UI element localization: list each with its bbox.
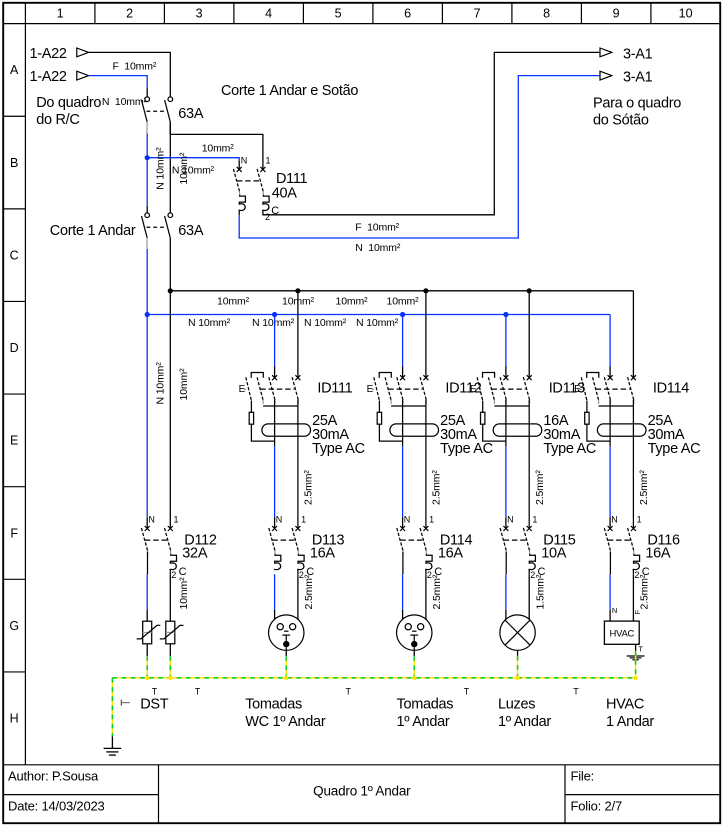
RCD ID113 test switch blade (477, 377, 483, 400)
RCD ID113 pole connector bar (494, 405, 529, 407)
node earth junction (yellow dot) (412, 676, 416, 680)
node earth junction (yellow dot) (168, 676, 172, 680)
RCD ID113 pole F blade (523, 377, 529, 399)
node bus N left junction (145, 312, 150, 317)
isolator switch Q1 63A pole N (145, 97, 150, 102)
mechanical link D113 (272, 539, 296, 541)
wire D111 F out to 3-A1 (263, 52, 600, 214)
socket earth pin (412, 630, 416, 632)
breaker D115 pole N blade (500, 528, 506, 550)
breaker D115 pole N lead (505, 552, 507, 575)
RCD ID114 toroid sensor (597, 424, 646, 436)
wire drop F to ID112 (425, 291, 427, 378)
svg-text:N: N (611, 515, 618, 525)
RCD ID111 test switch blade (246, 377, 252, 400)
wire socket to earth (285, 650, 287, 656)
earth wire (green/yellow) (285, 656, 287, 678)
mechanical link D112 (145, 539, 168, 541)
node earth junction (yellow dot) (284, 676, 288, 680)
breaker D116 pole N terminal (608, 526, 613, 531)
RCD ID111 pole N terminal (272, 375, 277, 380)
svg-text:Corte 1 Andar: Corte 1 Andar (50, 223, 136, 239)
wire drop N to ID112 (blue) (402, 315, 404, 367)
svg-text:N: N (612, 606, 617, 615)
svg-text:ID114: ID114 (653, 380, 689, 396)
connector 1-A22 (neutral input) (77, 71, 89, 80)
wire D111 N out to 3-A1 (blue) (238, 210, 240, 216)
connector 1-A22 (phase input) (77, 48, 89, 57)
socket outlet Tomadas WC (269, 615, 304, 650)
wire ID114 pole N through (609, 400, 611, 447)
mechanical link D115 (504, 539, 528, 541)
node bus F junction 1 (295, 288, 300, 293)
RCD ID112 pole connector bar (391, 405, 426, 407)
svg-text:HVAC: HVAC (606, 697, 644, 713)
svg-text:10: 10 (679, 7, 693, 21)
wire drop F to ID111 (297, 291, 299, 378)
breaker D115 pole 1 blade (523, 528, 529, 550)
svg-text:F 10mm²: F 10mm² (355, 222, 399, 234)
svg-text:N 10mm²: N 10mm² (356, 317, 399, 329)
svg-text:H: H (10, 712, 19, 726)
RCD ID114 pole F blade (628, 377, 634, 399)
svg-text:N: N (276, 515, 283, 525)
svg-text:2.5mm²: 2.5mm² (303, 470, 315, 505)
node bus N junction 2 (400, 312, 405, 317)
svg-text:B: B (10, 156, 18, 170)
wire Q2 N to blue bus (146, 249, 148, 315)
wire ID114 N to breaker (blue) (609, 446, 611, 517)
breaker D116 trip element 1 (633, 554, 640, 570)
breaker D111 trip element 1 (262, 195, 269, 211)
RCD ID112 toroid sensor (390, 424, 439, 436)
svg-text:1: 1 (174, 515, 179, 525)
RCD ID111 pole F blade (292, 377, 298, 399)
wire F down to Q2 (169, 134, 171, 213)
wire N feeder to D112 (blue) (146, 315, 148, 518)
svg-text:1-A22: 1-A22 (29, 46, 66, 62)
wire ID113 pole N through (505, 400, 507, 447)
breaker D111 pole N blade (233, 169, 239, 191)
earth bus left drop (green/yellow) (111, 678, 113, 736)
wire F vertical to branch (169, 122, 171, 134)
svg-text:D111: D111 (276, 171, 308, 187)
title block (3, 764, 720, 766)
wire F branch to D111 (170, 134, 263, 169)
svg-text:5: 5 (335, 7, 342, 21)
RCD ID111 pole connector bar (263, 405, 298, 407)
earth wire (green/yellow) (169, 656, 171, 678)
breaker D112 trip element 1 (170, 554, 177, 570)
mechanical link Q2 (147, 226, 167, 228)
breaker D112 pole N blade (141, 528, 147, 550)
mechanical link D111 (237, 180, 261, 182)
wire socket to earth (413, 650, 415, 656)
surge arrester F1 (DST) (143, 621, 152, 644)
svg-text:WC 1º Andar: WC 1º Andar (245, 714, 326, 730)
RCD ID111 auxiliary blade (257, 377, 263, 400)
svg-text:Luzes: Luzes (498, 697, 535, 713)
RCD ID112 pole F blade (420, 377, 426, 399)
svg-text:9: 9 (613, 7, 620, 21)
mechanical link ID114 (596, 388, 630, 390)
wire F to load (528, 574, 530, 619)
svg-text:2.5mm²: 2.5mm² (303, 574, 315, 609)
wire ID111 pole N through (274, 400, 276, 447)
svg-text:1: 1 (429, 515, 434, 525)
svg-text:Type AC: Type AC (648, 441, 701, 457)
breaker D111 trip element N (239, 195, 246, 211)
connector 3-A1 (phase out) (600, 48, 612, 57)
RCD ID113 test resistor (482, 401, 484, 413)
svg-text:T: T (464, 687, 470, 697)
wire N to load (blue) (609, 574, 611, 610)
RCD ID113 auxiliary blade (488, 377, 494, 400)
wire F feeder to D112 (169, 291, 171, 529)
wire F to load (425, 574, 427, 619)
svg-text:C: C (179, 566, 187, 578)
RCD ID112 pole F terminal (423, 375, 428, 380)
RCD ID114 pole N terminal (608, 375, 613, 380)
svg-text:N: N (507, 515, 513, 525)
node bus N junction 3 (503, 312, 508, 317)
mechanical link ID111 (260, 388, 294, 390)
svg-text:1: 1 (266, 155, 271, 165)
svg-text:C: C (10, 248, 19, 262)
svg-text:DST: DST (140, 697, 169, 713)
surge arrester F2 (DST) (166, 621, 175, 644)
bus F 10mm² (black) (170, 290, 633, 292)
wire drop N to ID113 (blue) (505, 315, 507, 367)
wire drop N to ID111 (blue) (274, 315, 276, 367)
breaker D112 pole 1 terminal (168, 526, 173, 531)
isolator switch Q2 63A pole N (145, 213, 150, 218)
svg-text:2.5mm²: 2.5mm² (431, 470, 443, 505)
node earth junction (yellow dot) (145, 676, 149, 680)
svg-text:10mm²: 10mm² (387, 295, 420, 307)
breaker D113 pole N terminal (272, 526, 277, 531)
svg-text:Type AC: Type AC (312, 441, 365, 457)
breaker D111 pole 1 blade (257, 169, 263, 191)
wire N to load (blue) (146, 574, 148, 610)
wire arrester to earth (169, 644, 171, 656)
node bus N junction 1 (272, 312, 277, 317)
svg-text:16A: 16A (438, 545, 464, 561)
RCD ID114 test resistor (586, 401, 588, 413)
svg-text:T: T (346, 687, 352, 697)
svg-text:63A: 63A (178, 223, 204, 239)
earth wire (green/yellow) (517, 656, 519, 678)
svg-text:N: N (241, 155, 248, 165)
RCD ID112 pole N blade (397, 377, 403, 399)
svg-text:Do quadro: Do quadro (36, 95, 101, 111)
breaker D114 pole N lead (402, 552, 404, 575)
svg-text:N 10mm²: N 10mm² (304, 317, 347, 329)
wire F to load (297, 574, 299, 619)
connector 3-A1 (neutral out) (600, 71, 612, 80)
svg-text:N 10mm²: N 10mm² (155, 147, 167, 190)
svg-text:T: T (573, 687, 579, 697)
mechanical link Q1 (147, 110, 167, 112)
svg-text:Para o quadro: Para o quadro (593, 96, 681, 112)
svg-text:1: 1 (57, 7, 64, 21)
wire F feed from 1-A22 (89, 52, 171, 97)
svg-text:16A: 16A (310, 545, 336, 561)
RCD ID111 pole F terminal (295, 375, 300, 380)
wire F to load (169, 574, 171, 621)
svg-text:3-A1: 3-A1 (623, 70, 653, 86)
svg-text:6: 6 (404, 7, 411, 21)
svg-text:2.5mm²: 2.5mm² (534, 470, 546, 505)
svg-text:1-A22: 1-A22 (29, 69, 66, 85)
svg-text:63A: 63A (178, 106, 204, 122)
earth wire HVAC (green/yellow) (635, 651, 637, 678)
svg-text:4: 4 (265, 7, 272, 21)
svg-text:2: 2 (171, 570, 176, 580)
breaker D113 trip element 1 (297, 554, 304, 570)
breaker D114 pole N blade (397, 528, 403, 550)
earth symbol at HVAC (627, 655, 645, 657)
socket outlet Tomadas 1º Andar (397, 615, 432, 650)
svg-text:E: E (10, 434, 18, 448)
svg-text:1: 1 (637, 515, 642, 525)
svg-text:G: G (9, 619, 19, 633)
breaker D112 pole 1 blade (165, 528, 171, 550)
breaker D114 pole 1 blade (420, 528, 426, 550)
svg-text:10mm²: 10mm² (336, 295, 369, 307)
breaker D113 pole 1 terminal (295, 526, 300, 531)
mechanical link ID113 (492, 388, 526, 390)
svg-text:HVAC: HVAC (610, 629, 635, 640)
RCD ID113 toroid sensor (493, 424, 542, 436)
svg-text:1º Andar: 1º Andar (498, 714, 551, 730)
mechanical link D114 (400, 539, 424, 541)
svg-text:1: 1 (301, 515, 306, 525)
wire ID112 pole N through (402, 400, 404, 447)
socket holes (405, 624, 411, 630)
breaker D115 pole 1 terminal (527, 526, 532, 531)
wire HVAC to earth (635, 644, 637, 651)
RCD ID111 pole N blade (269, 377, 275, 399)
earth reference glyph at DST (120, 700, 122, 706)
svg-text:do Sótão: do Sótão (593, 113, 649, 129)
RCD ID113 pole F terminal (527, 375, 532, 380)
node bus F junction 2 (423, 288, 428, 293)
wire ID113 N to breaker (blue) (505, 446, 507, 517)
svg-text:F: F (633, 610, 642, 615)
lamp symbol (Luzes) (500, 615, 535, 650)
svg-text:10mm²: 10mm² (178, 368, 190, 401)
wire N to load (blue) (402, 574, 404, 610)
RCD ID112 auxiliary blade (385, 377, 391, 400)
wire N feed from 1-A22 (blue) (89, 76, 148, 89)
breaker D113 pole 1 blade (292, 528, 298, 550)
RCD ID112 test switch blade (374, 377, 380, 400)
wire N to load (blue) (274, 574, 276, 610)
svg-text:A: A (10, 63, 19, 77)
breaker D114 trip element 1 (425, 554, 432, 570)
ground electrode (111, 736, 113, 748)
wire drop F to ID113 (528, 291, 530, 378)
breaker D111 pole 1 terminal (260, 167, 265, 172)
svg-text:10mm²: 10mm² (202, 142, 235, 154)
svg-text:N 10mm²: N 10mm² (102, 96, 148, 108)
wire lamp to earth (517, 650, 519, 656)
breaker D113 pole N blade (269, 528, 275, 550)
wire ID112 N to breaker (blue) (402, 446, 404, 517)
svg-text:Quadro 1º Andar: Quadro 1º Andar (313, 783, 411, 798)
wire N branch to D111 (blue) (147, 158, 239, 161)
svg-text:3-A1: 3-A1 (623, 46, 653, 62)
svg-text:10mm²: 10mm² (178, 577, 190, 610)
wire drop N to ID114 (blue) (609, 315, 611, 367)
svg-text:2: 2 (126, 7, 133, 21)
svg-text:D: D (10, 341, 19, 355)
svg-text:1.5mm²: 1.5mm² (534, 574, 546, 609)
breaker D113 trip element N (274, 554, 281, 570)
svg-text:N: N (404, 515, 411, 525)
earth wire (green/yellow) (413, 656, 415, 678)
svg-text:Date: 14/03/2023: Date: 14/03/2023 (8, 798, 105, 813)
node earth junction (yellow dot) (633, 676, 637, 680)
svg-text:F: F (10, 526, 18, 540)
RCD ID112 test resistor (378, 401, 380, 413)
earth wire (green/yellow) (146, 656, 148, 678)
svg-text:1 Andar: 1 Andar (606, 714, 654, 730)
RCD ID113 pole N blade (500, 377, 506, 399)
svg-text:do R/C: do R/C (36, 112, 79, 128)
breaker D116 pole 1 terminal (631, 526, 636, 531)
svg-text:Folio: 2/7: Folio: 2/7 (571, 798, 622, 813)
node bus F corner junction (168, 288, 173, 293)
wire ID111 N to breaker (blue) (274, 446, 276, 517)
RCD ID114 test button (587, 373, 599, 378)
svg-text:T: T (152, 687, 158, 697)
RCD ID111 test button (251, 373, 263, 378)
wire N junction down to Q2 (blue) (146, 158, 148, 206)
RCD ID111 test resistor (250, 401, 252, 413)
svg-text:N 10mm²: N 10mm² (355, 242, 401, 254)
svg-text:T: T (195, 687, 201, 697)
svg-text:Tomadas: Tomadas (397, 697, 454, 713)
HVAC unit box (604, 621, 639, 644)
svg-text:N 10mm²: N 10mm² (188, 317, 231, 329)
RCD ID114 pole connector bar (599, 405, 634, 407)
breaker D111 pole N terminal (237, 167, 242, 172)
svg-text:3: 3 (196, 7, 203, 21)
bus N 10mm² (blue) (147, 314, 610, 316)
breaker D112 pole N lead (147, 552, 149, 575)
RCD ID114 auxiliary blade (593, 377, 599, 400)
wire ID114 pole F through (632, 400, 634, 529)
svg-text:Author: P.Sousa: Author: P.Sousa (8, 769, 99, 784)
svg-text:40A: 40A (272, 186, 298, 202)
wire arrester to earth (146, 644, 148, 656)
mechanical link ID112 (388, 388, 422, 390)
wire N to load (blue) (505, 574, 507, 610)
breaker D115 pole N terminal (503, 526, 508, 531)
svg-text:2.5mm²: 2.5mm² (639, 574, 651, 609)
earth bus (green/yellow) (112, 677, 635, 679)
RCD ID114 pole N blade (604, 377, 610, 399)
svg-text:Type AC: Type AC (440, 441, 493, 457)
mechanical link D116 (608, 539, 632, 541)
wire ID112 pole F through (425, 400, 427, 529)
svg-text:2: 2 (265, 212, 270, 222)
svg-text:ID111: ID111 (317, 380, 352, 396)
node junction N (blue dot) (145, 155, 150, 160)
breaker D114 pole N terminal (400, 526, 405, 531)
breaker D116 pole N lead (609, 552, 611, 575)
node bus F junction 3 (527, 288, 532, 293)
svg-text:8: 8 (543, 7, 550, 21)
RCD ID114 test switch blade (581, 377, 587, 400)
svg-text:N 10mm²: N 10mm² (155, 362, 167, 405)
svg-text:N 10mm²: N 10mm² (252, 317, 295, 329)
svg-text:F 10mm²: F 10mm² (113, 61, 157, 73)
svg-text:Corte 1 Andar e Sotão: Corte 1 Andar e Sotão (221, 83, 358, 99)
svg-text:10mm²: 10mm² (217, 295, 250, 307)
svg-text:7: 7 (474, 7, 481, 21)
svg-text:N: N (148, 515, 155, 525)
svg-text:1º Andar: 1º Andar (397, 714, 450, 730)
svg-text:Type AC: Type AC (543, 441, 596, 457)
wire Q2 F to black bus (169, 238, 171, 291)
socket earth pin (284, 630, 288, 632)
RCD ID112 test button (379, 373, 391, 378)
breaker D116 pole N blade (604, 528, 610, 550)
svg-text:1: 1 (532, 515, 537, 525)
svg-text:2.5mm²: 2.5mm² (638, 470, 650, 505)
socket holes (277, 624, 283, 630)
RCD ID113 pole N terminal (503, 375, 508, 380)
svg-text:Tomadas: Tomadas (245, 697, 302, 713)
breaker D114 pole 1 terminal (423, 526, 428, 531)
wire N vertical to junction (blue) (146, 134, 148, 158)
RCD ID113 test button (483, 373, 495, 378)
RCD ID111 toroid sensor (262, 424, 311, 436)
svg-text:2.5mm²: 2.5mm² (431, 574, 443, 609)
breaker D116 pole 1 blade (628, 528, 634, 550)
svg-text:10A: 10A (541, 545, 567, 561)
breaker D115 trip element 1 (529, 554, 536, 570)
wire F to load (632, 574, 634, 621)
svg-text:10mm²: 10mm² (178, 152, 190, 185)
RCD ID114 pole F terminal (631, 375, 636, 380)
RCD ID112 pole N terminal (400, 375, 405, 380)
svg-text:16A: 16A (645, 545, 671, 561)
svg-text:T: T (638, 644, 643, 653)
svg-text:File:: File: (571, 769, 595, 784)
isolator switch Q2 63A pole F (168, 213, 173, 218)
svg-text:32A: 32A (182, 545, 208, 561)
wire ID113 pole F through (528, 400, 530, 529)
isolator switch Q1 63A pole F (168, 97, 173, 102)
node earth junction (yellow dot) (515, 676, 519, 680)
breaker D112 pole N terminal (145, 526, 150, 531)
wire drop F to ID114 (632, 291, 634, 378)
wire ID111 pole F through (297, 400, 299, 529)
